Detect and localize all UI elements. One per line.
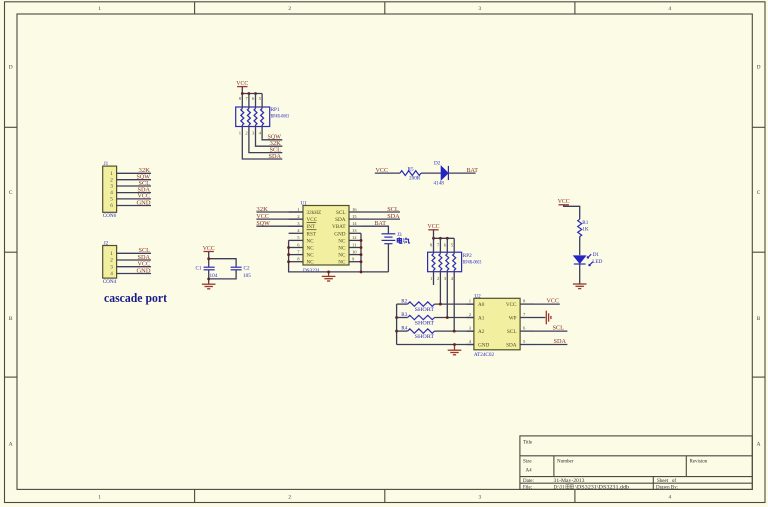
svg-text:NC: NC (307, 238, 315, 244)
svg-text:SDA: SDA (269, 153, 282, 160)
junction dot C1 bottom (207, 277, 210, 280)
svg-text:C2: C2 (244, 265, 250, 271)
ground (C1/C2) (202, 284, 216, 289)
svg-text:105: 105 (243, 273, 251, 279)
svg-text:3: 3 (478, 495, 481, 501)
svg-text:1: 1 (98, 6, 101, 12)
svg-text:SCL: SCL (553, 325, 565, 332)
svg-text:Title: Title (523, 441, 533, 446)
wire RP1 pin2 to SCL (249, 127, 282, 153)
svg-text:15: 15 (352, 214, 357, 219)
svg-text:D2: D2 (434, 161, 441, 167)
svg-text:NC: NC (338, 238, 346, 244)
junction dot U2 ground (453, 343, 456, 346)
svg-text:LED: LED (592, 259, 602, 265)
svg-text:VBAT: VBAT (332, 224, 346, 230)
svg-text:B: B (757, 316, 761, 322)
svg-text:C1: C1 (195, 265, 201, 271)
svg-text:Number: Number (557, 460, 574, 465)
wire D2 to BAT (448, 172, 475, 174)
svg-text:NC: NC (307, 246, 315, 252)
svg-text:R1: R1 (582, 220, 588, 226)
svg-text:3: 3 (110, 184, 113, 190)
wire U1 pin15 SDA (361, 218, 400, 220)
wire RP2 pin2 to A0 (439, 272, 441, 304)
wire U1 pin2 VCC (256, 218, 303, 220)
net label VCC (U1) (256, 213, 269, 220)
svg-text:SCL: SCL (336, 210, 346, 216)
resistor R2 SHORT (397, 299, 435, 313)
resistor R3 SHORT (397, 312, 435, 326)
wire U1 NC left rail (289, 240, 389, 272)
net label SCL (U2) (553, 325, 565, 332)
wire J2 pin3 VCC (117, 266, 151, 268)
resistor network RP2 RP4R-0603 (428, 238, 462, 271)
net label BAT (D2) (467, 167, 479, 174)
designator RP1 (271, 107, 280, 113)
wire J1 pin5 VCC (117, 198, 151, 200)
wire U1 pin3 SQW (256, 225, 303, 227)
net label SQW (U1) (256, 220, 270, 227)
pin numbers U1 right 16-9 (352, 207, 357, 262)
wire U1 pin1 32K (256, 211, 303, 213)
svg-text:C: C (757, 190, 761, 196)
svg-text:NC: NC (307, 260, 315, 266)
diode D2 4148 (434, 161, 449, 187)
svg-text:CON6: CON6 (103, 213, 117, 219)
junction dots RP2 bus (432, 237, 449, 240)
wire U2 pin5 SDA (534, 344, 567, 346)
wire RP2 pin4 to A2 (453, 272, 455, 331)
svg-text:13: 13 (352, 228, 357, 233)
wire U1 right NC rail (360, 233, 362, 272)
wire R1 to D1 (579, 237, 581, 256)
pin numbers RP2 top 8 7 6 5 (430, 242, 454, 247)
junction dots U1 left rail (287, 246, 290, 263)
svg-text:NC: NC (338, 260, 346, 266)
net label SDA (J1) (138, 186, 151, 193)
net label 32K (270, 140, 282, 147)
junction dots RP1 bus (241, 92, 257, 95)
value RP4R-0603 (271, 113, 290, 119)
svg-text:A: A (9, 442, 13, 448)
wire J2 pin1 SCL (117, 252, 151, 254)
junction dot A2/RP2 (453, 330, 456, 333)
svg-text:INT: INT (307, 224, 316, 230)
wire J2 pin2 SDA (117, 259, 151, 261)
wire R4 to U2 pin3 A2 (435, 330, 474, 332)
wire U2 pin6 SCL (534, 330, 567, 332)
svg-text:SHORT: SHORT (415, 334, 435, 340)
svg-text:4: 4 (110, 190, 113, 196)
svg-text:GND: GND (334, 231, 345, 237)
wire J1 pin6 GND (117, 205, 151, 207)
svg-text:NC: NC (338, 246, 346, 252)
svg-text:11: 11 (352, 242, 357, 247)
svg-text:32K: 32K (256, 206, 268, 213)
net label SCL (J2) (139, 247, 151, 254)
svg-text:4: 4 (110, 271, 113, 277)
led D1 LED (574, 252, 603, 266)
svg-text:D: D (757, 64, 761, 70)
net label SDA (J2) (138, 254, 151, 261)
connector J1 CON6 (103, 161, 117, 219)
svg-text:2: 2 (288, 6, 291, 12)
svg-text:2: 2 (288, 495, 291, 501)
svg-text:Sheet of: Sheet of (657, 479, 676, 484)
ground (D1) (573, 284, 587, 289)
wire RP1 pin3 to 32K (256, 127, 283, 147)
pin numbers RP1 top 8 7 6 5 (239, 96, 262, 101)
svg-text:Drawn By:: Drawn By: (656, 486, 678, 491)
svg-text:10: 10 (352, 249, 357, 254)
ic U1 DS3231 (289, 200, 361, 273)
wire R2 to U2 pin1 A0 (435, 303, 474, 305)
svg-text:GND: GND (137, 267, 151, 274)
wire C1 bottom (208, 270, 210, 284)
svg-text:VCC: VCC (558, 198, 570, 205)
svg-text:2: 2 (110, 177, 113, 183)
junction dots U1 right rail (360, 239, 363, 273)
wire J1 pin4 SDA (117, 192, 151, 194)
net label 32K (J1) (139, 167, 151, 174)
svg-text:SCL: SCL (507, 329, 517, 335)
svg-text:VCC: VCC (506, 302, 517, 308)
svg-text:RP4R-0603: RP4R-0603 (271, 113, 290, 119)
text cascade port (104, 291, 168, 305)
svg-text:VCC: VCC (547, 298, 560, 305)
wire GND rail to U2 pin4 (397, 344, 474, 346)
resistor R4 SHORT (397, 326, 435, 340)
svg-text:1: 1 (110, 251, 113, 257)
svg-text:BAT: BAT (467, 167, 479, 174)
pin numbers U2 right 8-5 (523, 299, 526, 344)
svg-text:DS3231: DS3231 (303, 268, 320, 274)
svg-text:A0: A0 (478, 302, 485, 308)
junction dot A0/RP2 (439, 303, 442, 306)
svg-text:4: 4 (669, 6, 672, 12)
net label 32K (U1) (256, 206, 268, 213)
svg-text:VCC: VCC (428, 223, 440, 230)
svg-text:D1: D1 (593, 252, 600, 258)
wire R left rail (396, 304, 398, 344)
value RP4R-0603 (RP2) (463, 259, 482, 265)
svg-text:RP1: RP1 (271, 107, 280, 113)
ground (U2) (454, 345, 456, 351)
net label GND (J1) (137, 199, 151, 206)
svg-text:WP: WP (509, 316, 517, 322)
net label GND (J2) (137, 267, 151, 274)
svg-text:3: 3 (478, 6, 481, 12)
svg-text:\DS3231\DS3231.ddb: \DS3231\DS3231.ddb (575, 486, 630, 491)
wire J1 pin2 SQW (117, 179, 151, 181)
ground (WP rotated) (546, 311, 551, 325)
resistor R5 200R (400, 167, 421, 182)
svg-text:R2: R2 (401, 299, 407, 305)
svg-text:SHORT: SHORT (415, 307, 435, 313)
svg-text:D:\31: D:\31 (554, 486, 565, 491)
svg-text:SDA: SDA (554, 338, 567, 345)
net label SCL (U1) (387, 206, 399, 213)
wire R3 to U2 pin2 A1 (435, 317, 474, 319)
wire U2 pin7 WP (534, 317, 545, 319)
svg-text:GND: GND (478, 343, 489, 349)
power port VCC (C1) (203, 245, 215, 252)
net label VCC (R5) (376, 167, 389, 174)
wire U2 pin8 VCC (534, 303, 560, 305)
net label SDA (269, 153, 282, 160)
pin numbers RP2 bottom 1 2 3 4 (430, 276, 454, 281)
net label VCC (J1) (138, 193, 151, 200)
svg-text:R5: R5 (408, 167, 414, 173)
wire J2 pin4 GND (117, 273, 151, 275)
net label SQW (J1) (137, 174, 151, 181)
wire VCC to C1 (208, 252, 210, 267)
net label SDA (U2) (554, 338, 567, 345)
svg-text:RP4R-0603: RP4R-0603 (463, 259, 482, 265)
svg-text:BAT: BAT (375, 220, 387, 227)
wire D1 to ground (579, 264, 581, 284)
wire J1 pin1 32K (117, 172, 151, 174)
pin numbers U1 left 1-8 (297, 207, 300, 262)
wire VCC to R1 (564, 205, 580, 220)
wire U1 pin14 BAT to battery (361, 226, 388, 234)
wire RP2 pin3 to A1 (446, 272, 448, 318)
svg-text:J3: J3 (397, 232, 402, 238)
capacitor C2 105 (231, 265, 252, 278)
svg-text:Date:: Date: (523, 479, 534, 484)
net label SQW (268, 134, 282, 141)
power port VCC (RP2) (428, 223, 440, 230)
wire U1 pin16 SCL (361, 211, 400, 213)
wire C2 bottom to C1 (209, 270, 236, 279)
svg-text:6: 6 (110, 203, 113, 209)
wire RP2 top bus (434, 237, 455, 239)
svg-text:A2: A2 (478, 329, 485, 335)
svg-text:SCL: SCL (387, 206, 399, 213)
svg-text:1: 1 (110, 171, 113, 177)
wire RP1 top bus (242, 93, 262, 95)
svg-text:GND: GND (137, 199, 151, 206)
net label SCL (J1) (139, 180, 151, 187)
svg-text:31-May-2013: 31-May-2013 (554, 479, 586, 484)
svg-text:14: 14 (352, 221, 357, 226)
svg-text:12: 12 (352, 235, 357, 240)
svg-text:SQW: SQW (256, 220, 270, 227)
svg-text:AT24C02: AT24C02 (474, 352, 495, 358)
svg-text:200R: 200R (409, 176, 421, 182)
svg-text:RST: RST (307, 231, 317, 237)
svg-text:NC: NC (338, 253, 346, 259)
svg-text:VCC: VCC (256, 213, 269, 220)
resistor network RP1 RP4R-0603 (236, 94, 270, 127)
svg-text:16: 16 (352, 207, 357, 212)
net label SCL (270, 146, 282, 153)
svg-text:4148: 4148 (434, 181, 445, 187)
net label BAT (375, 220, 387, 227)
svg-text:SDA: SDA (387, 213, 400, 220)
designator RP2 (463, 253, 472, 259)
svg-text:SDA: SDA (506, 343, 517, 349)
svg-text:1: 1 (98, 495, 101, 501)
svg-text:VCC: VCC (236, 80, 248, 87)
junction dot U1 ground (327, 270, 330, 273)
svg-text:Revision: Revision (690, 460, 708, 465)
net label VCC (J2) (138, 261, 151, 268)
wire RP1 pin4 to SQW (262, 127, 282, 140)
svg-text:3: 3 (110, 264, 113, 270)
svg-text:NC: NC (307, 253, 315, 259)
svg-text:A4: A4 (526, 469, 533, 474)
svg-text:C: C (9, 190, 13, 196)
junction dots R rail (395, 316, 398, 332)
svg-text:VCC: VCC (307, 217, 318, 223)
svg-text:32kHZ: 32kHZ (307, 210, 322, 216)
ic U2 AT24C02 (467, 293, 535, 358)
capacitor C1 104 (195, 265, 217, 278)
power port VCC (RP1) (236, 80, 248, 87)
svg-text:D: D (9, 64, 13, 70)
connector J2 CON4 (103, 240, 117, 285)
wire VCC to RP1 bus (241, 87, 243, 94)
resistor R1 1K (578, 219, 589, 236)
wire battery to bottom rail (387, 244, 389, 272)
svg-text:File:: File: (523, 486, 532, 491)
svg-text:R3: R3 (401, 312, 407, 318)
svg-text:1K: 1K (582, 226, 589, 232)
wire R5 to D2 (421, 172, 441, 174)
svg-text:SDA: SDA (335, 217, 346, 223)
net label VCC (U2) (547, 298, 560, 305)
power port VCC (R1) (558, 198, 570, 205)
svg-text:104: 104 (210, 273, 218, 279)
junction dot A1/RP2 (446, 316, 449, 319)
ground (U1) (328, 272, 330, 276)
wire J1 pin3 SCL (117, 185, 151, 187)
wire VCC to RP2 bus (433, 230, 435, 239)
svg-text:A1: A1 (478, 316, 485, 322)
battery J3 (382, 232, 410, 244)
svg-text:B: B (9, 316, 13, 322)
net label SDA (U1) (387, 213, 400, 220)
wire RP1 pin1 to SDA (242, 127, 282, 160)
wire VCC to R5 (375, 172, 400, 174)
svg-text:VCC: VCC (203, 245, 215, 252)
svg-text:R4: R4 (401, 326, 407, 332)
svg-text:cascade port: cascade port (104, 291, 168, 305)
svg-text:4: 4 (669, 495, 672, 501)
wire C1 to C2 top (209, 259, 236, 267)
pin numbers U2 left 1-4 (469, 299, 472, 344)
wire RP2 pin1 stub (433, 272, 435, 285)
pin numbers RP1 bottom 1 2 3 4 (239, 131, 262, 136)
svg-text:Size: Size (523, 460, 532, 465)
svg-text:2: 2 (110, 258, 113, 264)
svg-text:A: A (757, 442, 761, 448)
svg-text:5: 5 (110, 197, 113, 203)
junction dot C1 top (207, 257, 210, 260)
svg-text:SHORT: SHORT (415, 320, 435, 326)
svg-text:RP2: RP2 (463, 253, 472, 259)
svg-text:CON4: CON4 (103, 279, 117, 285)
